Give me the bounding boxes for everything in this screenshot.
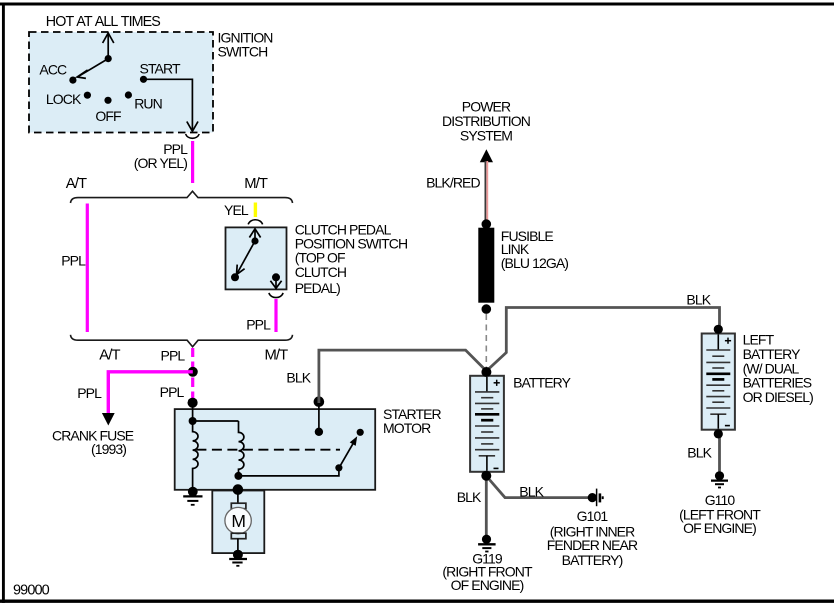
svg-text:BLK: BLK bbox=[457, 489, 482, 505]
svg-text:PEDAL): PEDAL) bbox=[295, 280, 340, 296]
svg-text:99000: 99000 bbox=[13, 583, 50, 599]
svg-text:OR DIESEL): OR DIESEL) bbox=[743, 389, 814, 405]
svg-text:(1993): (1993) bbox=[91, 441, 126, 457]
svg-text:HOT AT ALL TIMES: HOT AT ALL TIMES bbox=[46, 14, 161, 30]
svg-text:(OR YEL): (OR YEL) bbox=[134, 155, 187, 171]
svg-text:BATTERY): BATTERY) bbox=[562, 552, 623, 568]
svg-text:FENDER NEAR: FENDER NEAR bbox=[547, 537, 638, 553]
svg-text:BLK: BLK bbox=[286, 370, 311, 386]
svg-text:G101: G101 bbox=[577, 508, 609, 524]
svg-text:BLK: BLK bbox=[686, 292, 711, 308]
svg-text:LOCK: LOCK bbox=[46, 91, 82, 107]
svg-text:SYSTEM: SYSTEM bbox=[460, 128, 512, 144]
svg-text:BLK: BLK bbox=[687, 445, 712, 461]
svg-text:PPL: PPL bbox=[161, 348, 186, 364]
svg-text:PPL: PPL bbox=[61, 253, 86, 269]
svg-text:ACC: ACC bbox=[39, 62, 67, 78]
svg-text:YEL: YEL bbox=[224, 202, 249, 218]
svg-text:A/T: A/T bbox=[66, 176, 87, 192]
svg-text:M/T: M/T bbox=[244, 176, 268, 192]
svg-text:SWITCH: SWITCH bbox=[218, 44, 268, 60]
svg-text:RUN: RUN bbox=[134, 95, 162, 111]
svg-text:PPL: PPL bbox=[77, 385, 102, 401]
svg-text:BATTERY: BATTERY bbox=[513, 375, 572, 391]
svg-text:M/T: M/T bbox=[265, 347, 289, 363]
svg-text:OF ENGINE): OF ENGINE) bbox=[683, 520, 756, 536]
svg-text:PPL: PPL bbox=[246, 316, 271, 332]
svg-text:A/T: A/T bbox=[99, 347, 120, 363]
svg-text:BLK: BLK bbox=[519, 484, 544, 500]
svg-text:START: START bbox=[140, 60, 181, 76]
svg-text:BLK/RED: BLK/RED bbox=[426, 175, 480, 191]
svg-text:OF ENGINE): OF ENGINE) bbox=[451, 577, 524, 593]
svg-text:MOTOR: MOTOR bbox=[383, 420, 431, 436]
svg-text:(BLU 12GA): (BLU 12GA) bbox=[501, 255, 568, 271]
svg-text:CLUTCH: CLUTCH bbox=[295, 264, 346, 280]
svg-text:PPL: PPL bbox=[160, 384, 185, 400]
svg-text:OFF: OFF bbox=[95, 108, 121, 124]
svg-text:M: M bbox=[231, 511, 245, 531]
